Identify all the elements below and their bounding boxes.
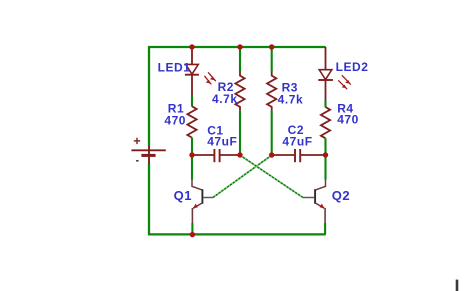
wire node to Q1 collector: [191, 155, 193, 180]
transistor Q2: [303, 179, 326, 223]
wire top rail: [148, 46, 326, 48]
svg-text:4.7k: 4.7k: [278, 93, 304, 107]
svg-text:LED1: LED1: [158, 61, 191, 75]
LED2 light arrow a: [342, 75, 351, 84]
wire R4 to node: [324, 138, 326, 154]
wire bottom rail: [148, 233, 326, 235]
resistor R1: [187, 106, 196, 137]
junction dot top R3: [269, 44, 274, 49]
LED2 light arrow b: [338, 80, 347, 89]
svg-text:470: 470: [164, 114, 186, 128]
wire cross-couple node B to Q1 base: [213, 155, 272, 197]
battery B1: [131, 138, 165, 164]
LED1 light arrow a: [204, 76, 211, 85]
svg-text:Q1: Q1: [174, 188, 192, 203]
resistor R2: [235, 72, 244, 111]
wire LED2 to R4: [324, 101, 326, 108]
LED D1: [185, 64, 216, 84]
wire LED1 anode pin: [191, 47, 193, 64]
wire R1 to node: [191, 138, 193, 154]
wire LED2 cathode pin: [325, 80, 327, 101]
wire R2 top: [239, 47, 241, 72]
junction dot node R1/C1: [189, 152, 194, 157]
junction dot node R3/C2: [269, 152, 274, 157]
svg-text:470: 470: [337, 113, 359, 127]
wire left rail lower: [148, 164, 150, 236]
wire cross-couple node A to Q2 base: [240, 155, 303, 197]
transistor Q1: [192, 179, 213, 223]
wire R3 bottom: [271, 111, 273, 154]
capacitor C2: [272, 149, 326, 162]
svg-text:47uF: 47uF: [207, 134, 237, 148]
text cursor mark bottom right: [456, 280, 459, 291]
LED1 light arrow b: [208, 72, 216, 81]
resistor R3: [267, 72, 276, 111]
svg-text:47uF: 47uF: [282, 134, 312, 148]
svg-text:4.7k: 4.7k: [212, 92, 238, 106]
junction dot top LED1: [189, 44, 194, 49]
wire LED1 to R1: [191, 96, 193, 107]
svg-text:LED2: LED2: [336, 60, 369, 74]
junction dot top R2: [237, 44, 242, 49]
junction dot node R2/C1: [237, 152, 242, 157]
resistor R4: [321, 107, 330, 138]
wire LED2 anode pin: [325, 47, 327, 70]
LED D2: [318, 70, 351, 90]
wire Q1 emitter to rail: [191, 223, 193, 234]
junction dot bottom rail Q1: [190, 232, 195, 237]
wire LED1 cathode pin: [191, 75, 193, 96]
wire node to Q2 collector: [324, 155, 326, 180]
capacitor C1: [192, 149, 240, 162]
svg-text:Q2: Q2: [332, 188, 350, 203]
wire left rail upper: [148, 46, 150, 146]
wire Q2 emitter to rail: [324, 223, 326, 234]
wire R3 top: [271, 47, 273, 72]
wire R2 bottom: [239, 111, 241, 154]
junction dot node R4/C2: [323, 152, 328, 157]
